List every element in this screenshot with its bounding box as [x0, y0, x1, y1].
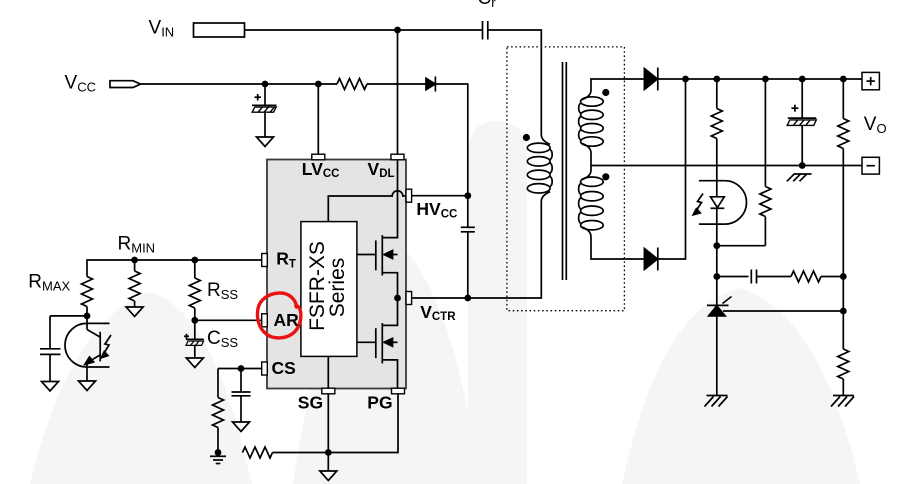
node primary phase dot [523, 134, 530, 141]
wire RMAX to collector [86, 307, 88, 316]
pin SG [322, 388, 335, 394]
wire SG bottom [273, 394, 399, 453]
resistor RMAX [82, 277, 93, 307]
wire R_fb to divider [821, 276, 843, 278]
wire VCC line [141, 83, 338, 85]
secondary bottom winding [579, 170, 604, 237]
ground chassis C_out [787, 174, 812, 181]
optocoupler LED U2a [693, 181, 746, 246]
node LVcc junction [315, 81, 322, 88]
wire divider mid [842, 149, 844, 350]
ground chassis divider [831, 396, 854, 407]
node TL431 top junction [713, 273, 720, 280]
connector VCC [110, 81, 141, 88]
wire divider branch top [842, 79, 844, 119]
capacitor C_vcc electrolytic [252, 84, 277, 137]
pin RT [262, 254, 268, 267]
pin CS [262, 362, 268, 375]
watermark blob left [30, 292, 252, 484]
wire SG internal [327, 356, 329, 388]
resistor R_low [838, 349, 849, 379]
wire TL431 ref [723, 310, 843, 312]
node CS junction [238, 365, 245, 372]
capacitor C_out electrolytic [787, 105, 816, 166]
watermark band [468, 121, 527, 484]
node HVcc junction [464, 192, 471, 199]
wire opto LED branch [716, 79, 718, 109]
resistor R_par [760, 187, 771, 217]
capacitor Cr [483, 21, 488, 40]
wire center tap [590, 153, 592, 170]
wire diode to HVcc branch [435, 84, 467, 196]
wire secondary bottom lead [591, 237, 644, 259]
transformer T1 dashed box [507, 47, 625, 311]
pin HVcc [406, 189, 412, 202]
diode D_vcc [426, 77, 435, 92]
pin VCTR [406, 292, 412, 305]
pin PG [392, 388, 405, 394]
diode D2 bottom rectifier [644, 248, 657, 271]
ground arrow RMIN [126, 307, 143, 317]
node rail opto branch [713, 76, 720, 83]
resistor RSS [189, 278, 200, 308]
node VCC cap junction [262, 81, 269, 88]
svg-text:SG: SG [298, 392, 323, 412]
optocoupler phototransistor U2b [65, 316, 111, 381]
pin VDL [391, 154, 404, 160]
capacitor C_fb [717, 270, 791, 284]
svg-text:PG: PG [367, 393, 392, 413]
wire R_low to ground [842, 379, 844, 396]
node RSS junction [191, 257, 198, 264]
node secondary top phase dot [602, 89, 609, 96]
wire left cap vertical [49, 316, 51, 349]
node rail parallel R [762, 76, 769, 83]
secondary top winding [579, 90, 604, 153]
wire cap to ground [49, 354, 51, 381]
pin AR [262, 314, 268, 327]
ground arrow below C_vcc [257, 137, 274, 147]
wire R_par bottom [764, 217, 766, 246]
wire top rail [658, 78, 862, 80]
ground arrow C_cs [233, 422, 250, 432]
resistor R_fb [791, 271, 821, 282]
node secondary bottom phase dot [602, 173, 609, 180]
resistor R_vcc [337, 79, 367, 90]
node LED cathode junction [713, 242, 720, 249]
wire HVcc internal with hop [328, 191, 406, 222]
terminal plus box [862, 72, 879, 89]
node divider feedback junction [840, 273, 847, 280]
wire HVcc pin to branch [412, 195, 468, 197]
wire AR [195, 319, 262, 321]
diode D1 top rectifier [644, 68, 657, 91]
wire CS left branch [217, 369, 219, 398]
transistor Q1 high-side MOSFET [357, 160, 397, 298]
wire CS line [218, 368, 262, 370]
resistor R_led [711, 109, 722, 139]
red circle annotation around AR pin [257, 293, 300, 338]
wire R_led to LED [716, 139, 718, 197]
inner block FSFR-XS Series [301, 222, 357, 357]
fuse F1 [194, 23, 245, 37]
node AR junction [191, 317, 198, 324]
ground arrow left cap [42, 382, 59, 392]
ground earth bottom-left [210, 456, 226, 463]
pin LVcc [312, 154, 325, 160]
wire parallel R branch [764, 79, 766, 187]
ground arrow emitter [79, 381, 96, 391]
node bottom-left junction [215, 449, 222, 456]
wire LVcc vertical [317, 84, 319, 154]
node minus rail cap junction [799, 162, 806, 169]
node VCTR junction at hvcc branch [464, 295, 471, 302]
terminal minus box [862, 157, 879, 174]
svg-text:CS: CS [272, 358, 296, 378]
resistor RMIN [129, 271, 140, 301]
capacitor CSS electrolytic [184, 320, 204, 358]
wire output cap branch [801, 79, 803, 119]
primary winding [527, 135, 552, 202]
capacitor C_opto [40, 349, 61, 355]
wire resistor to diode [367, 83, 426, 85]
wire RSS vertical [194, 260, 196, 278]
wire Cr to transformer [488, 30, 542, 135]
node rail divider [840, 76, 847, 83]
node SG junction [325, 449, 332, 456]
wire RMIN vertical [134, 260, 136, 271]
wire RT line [87, 260, 262, 277]
wire RMIN to ground [134, 301, 136, 307]
wire minus rail [591, 165, 862, 167]
resistor R_up [838, 119, 849, 149]
ground arrow CSS [186, 358, 203, 368]
wire secondary top lead [591, 79, 644, 90]
wire D2 to top rail [658, 79, 686, 259]
capacitor C_cs [232, 369, 251, 423]
watermark blob right [622, 288, 860, 484]
wire cathode to parallel R [717, 245, 766, 247]
wire VIN rail [245, 29, 483, 31]
node VIN/VDL junction [394, 27, 401, 34]
svg-text:Series: Series [326, 258, 349, 318]
node RMIN junction [131, 257, 138, 264]
resistor R_cs [213, 398, 224, 428]
resistor R_sg [243, 447, 273, 458]
IC body U1 FSFR-XS [267, 160, 406, 389]
ground arrow SG [320, 471, 337, 481]
node rail cap [799, 76, 806, 83]
wire R_cs to bottom junction [217, 428, 219, 453]
wire VDL vertical [397, 30, 399, 154]
watermark blob center [293, 237, 480, 484]
wire RSS to AR [194, 308, 196, 320]
transformer core [563, 62, 567, 280]
wire VCTR to transformer [411, 202, 541, 299]
ground chassis TL431 [705, 396, 728, 407]
wire collector to left cap [50, 315, 87, 317]
shunt regulator TL431 [707, 297, 732, 396]
wire SG vertical [327, 394, 329, 471]
wire cathode node down [716, 246, 718, 306]
svg-text:AR: AR [274, 310, 300, 330]
node collector junction [84, 313, 91, 320]
transistor Q2 low-side MOSFET [357, 298, 397, 388]
node divider ref junction [840, 308, 847, 315]
node VCTR pin junction [394, 295, 401, 302]
capacitor C_hvcc [461, 196, 475, 298]
node rail D2 [682, 76, 689, 83]
svg-text:Cr: Cr [478, 0, 497, 10]
